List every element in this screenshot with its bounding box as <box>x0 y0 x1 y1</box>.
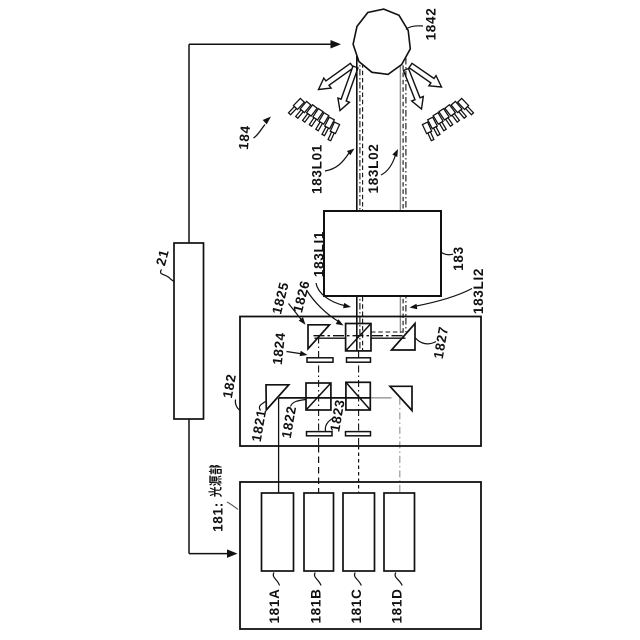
leader 181:光源部 <box>227 502 238 510</box>
column C dashed below box 182 <box>358 446 360 493</box>
beam 183L02 dashed line <box>402 58 404 335</box>
wire left vertical lower <box>188 419 190 554</box>
beam 183L02 solid line <box>399 58 401 333</box>
horizontal beam solid right segment <box>371 337 406 339</box>
horizontal optical line 1821 to 1823 <box>279 397 371 399</box>
scanner box 183 <box>324 211 441 296</box>
leader arrow 184 <box>254 125 266 139</box>
svg-text:181B: 181B <box>309 588 324 623</box>
horizontal beam solid left segment <box>315 337 346 339</box>
light source 181C <box>343 493 375 571</box>
scattered light arrow upper-left <box>319 63 354 89</box>
leader 181A <box>273 573 279 586</box>
column C dash-dot from BS1826 through 1823 to 181C <box>358 351 360 446</box>
leader 183LI1 <box>316 283 344 306</box>
horizontal optical line 1823 to prism (gray) <box>371 397 392 399</box>
leader 1824 <box>287 352 304 355</box>
horizontal beam axis dash-dot through BS1826 <box>314 335 405 337</box>
leader 1821 <box>259 402 265 411</box>
wire top horizontal with arrow to 1842 <box>189 43 332 45</box>
column D gray dash-dot from prism to 181D <box>399 398 401 493</box>
block 21 <box>174 243 204 419</box>
scattered light marks 184 left arc <box>293 98 304 109</box>
leader 1842 <box>406 26 423 30</box>
column B dashed below box 182 <box>318 446 320 493</box>
svg-text:181A: 181A <box>267 588 282 623</box>
scattered light arrow lower-right <box>404 69 424 110</box>
beam 183L01 dash-dot line <box>359 56 361 351</box>
leader 181D <box>395 573 402 586</box>
light source unit box 181 <box>240 482 481 629</box>
leader 181C <box>354 573 361 586</box>
leader 181B <box>314 573 321 586</box>
lens 1823 right <box>346 432 371 436</box>
svg-text:184: 184 <box>236 125 253 151</box>
leader 183 <box>442 253 454 255</box>
leader 1822 <box>291 400 306 407</box>
leader 182 <box>235 400 240 411</box>
mirror prism 1821 <box>266 385 289 410</box>
leader 1825 <box>289 304 303 321</box>
wire left vertical upper <box>188 44 190 244</box>
svg-text:183LI1: 183LI1 <box>312 231 327 277</box>
svg-text:183LI2: 183LI2 <box>471 268 486 314</box>
column B dash-dot from prism 1825 through 1822 to 181B <box>318 337 320 447</box>
light source 181A <box>262 493 294 571</box>
beam 183L02 dash-dot line <box>405 58 407 332</box>
beam splitter 1822 <box>306 383 331 410</box>
leader 21 <box>160 270 174 282</box>
horizontal beam prism1827 to BS1826 dashed <box>371 331 403 333</box>
leader 1823 <box>325 418 333 431</box>
leader 1827 <box>416 338 437 344</box>
beam 183L01 solid line <box>356 56 358 351</box>
leader 183L02 <box>381 155 396 175</box>
leader 183LI2 <box>414 289 472 307</box>
svg-text:183L01: 183L01 <box>310 144 325 194</box>
mirror prism right <box>390 386 412 410</box>
svg-text:183L02: 183L02 <box>366 144 381 194</box>
leader 183L01 <box>325 153 349 171</box>
light source 181D <box>384 493 415 571</box>
prism 1825 <box>308 325 330 349</box>
optical unit box 182 <box>240 317 481 447</box>
svg-text:181D: 181D <box>390 588 405 623</box>
beam splitter 1826 <box>346 324 371 351</box>
light source 181B <box>304 493 334 571</box>
svg-text:181:: 181: <box>211 502 226 532</box>
lens 1824 right <box>347 358 371 362</box>
prism 1827 <box>392 324 416 351</box>
lens 1823 left <box>307 432 333 436</box>
scattered light arrow lower-left <box>338 66 358 110</box>
svg-text:1842: 1842 <box>423 8 438 41</box>
column A solid from mirror 1821 to 181A <box>278 398 280 493</box>
svg-text:183: 183 <box>451 246 466 271</box>
projection object 1842 polygon <box>353 9 410 74</box>
svg-text:181C: 181C <box>349 588 364 623</box>
lens 1824 left <box>307 358 333 362</box>
leader 1826 <box>307 290 339 322</box>
wire bottom horizontal with arrow to 181 <box>189 553 228 555</box>
scattered light arrow upper-right <box>409 63 442 87</box>
scattered light marks 184 right arc <box>458 98 469 109</box>
beam splitter right (dichroic) <box>346 382 370 410</box>
beam 183L01 dashed line <box>362 56 364 351</box>
